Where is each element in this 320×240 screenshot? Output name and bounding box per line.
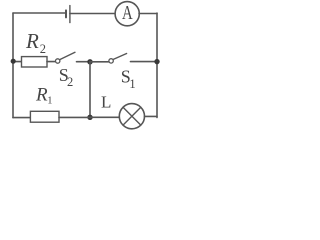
wire node to lamp — [90, 116, 119, 118]
node at left wire T junction — [11, 59, 16, 64]
switch S1 — [109, 54, 157, 64]
wire top left segment — [13, 12, 66, 14]
wire right side — [156, 13, 158, 118]
wire lamp to right side — [145, 115, 158, 117]
label R2 — [25, 29, 46, 56]
svg-text:2: 2 — [40, 42, 46, 56]
svg-text:R: R — [35, 85, 48, 106]
label L — [101, 93, 111, 112]
wire R2 to switch S2 — [47, 61, 55, 63]
svg-text:L: L — [101, 93, 111, 112]
svg-text:2: 2 — [67, 75, 73, 89]
wire ammeter to top-right corner — [139, 13, 157, 15]
svg-text:R: R — [25, 29, 39, 53]
wire node to S1 — [90, 61, 109, 63]
lamp L — [119, 104, 144, 129]
wire battery to ammeter — [70, 13, 115, 15]
wire middle vertical — [89, 62, 91, 118]
resistor R1 — [30, 111, 59, 122]
wire bottom left to R1 — [13, 117, 30, 119]
wire left to R2 — [13, 61, 22, 63]
label A of ammeter — [122, 1, 133, 24]
node at right wire T junction — [154, 59, 159, 64]
wire left side — [12, 13, 14, 118]
resistor R2 — [22, 57, 48, 67]
svg-text:1: 1 — [47, 95, 52, 106]
label R1 — [35, 85, 53, 107]
node junction S2/S1/vertical — [87, 59, 92, 64]
svg-text:A: A — [122, 1, 133, 24]
label S1 — [121, 66, 136, 91]
label S2 — [59, 65, 73, 89]
wire R1 to node — [59, 116, 90, 118]
svg-text:1: 1 — [129, 77, 135, 91]
node junction R1/lamp — [87, 115, 92, 120]
battery cell — [66, 6, 70, 23]
switch S2 — [56, 52, 89, 63]
ammeter A — [115, 2, 139, 26]
